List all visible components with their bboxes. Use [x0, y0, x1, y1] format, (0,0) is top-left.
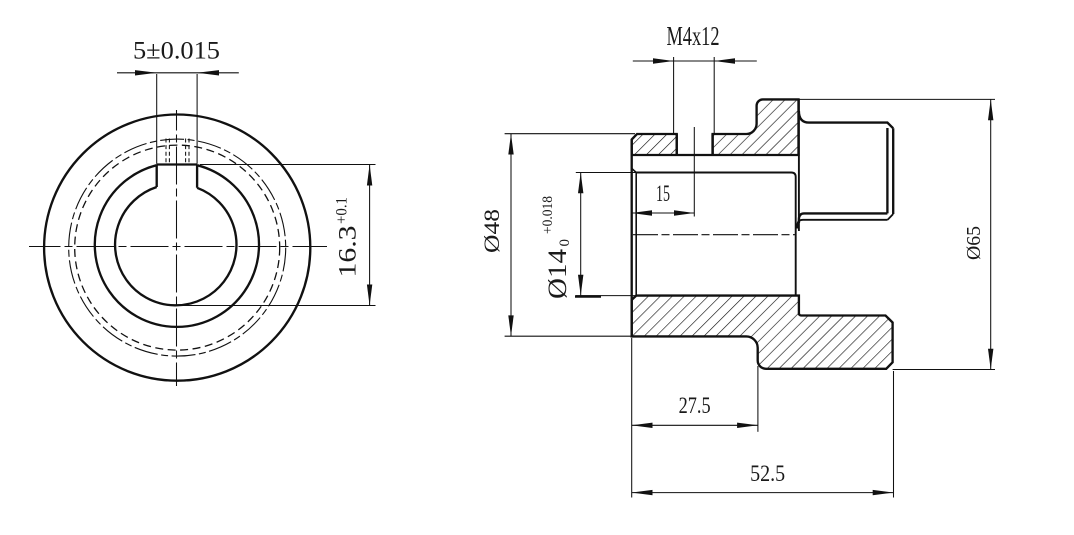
- svg-text:15: 15: [656, 181, 670, 206]
- svg-text:+0.1: +0.1: [334, 197, 351, 224]
- svg-text:52.5: 52.5: [750, 461, 785, 486]
- svg-text:Ø48: Ø48: [479, 209, 504, 253]
- svg-text:M4x12: M4x12: [667, 21, 720, 51]
- svg-text:Ø14: Ø14: [543, 249, 572, 299]
- svg-text:5±0.015: 5±0.015: [133, 38, 220, 65]
- svg-text:+0.018: +0.018: [540, 196, 556, 234]
- svg-text:27.5: 27.5: [679, 393, 711, 418]
- svg-text:16.3: 16.3: [335, 226, 362, 278]
- svg-text:Ø65: Ø65: [963, 226, 985, 260]
- svg-text:0: 0: [557, 239, 573, 247]
